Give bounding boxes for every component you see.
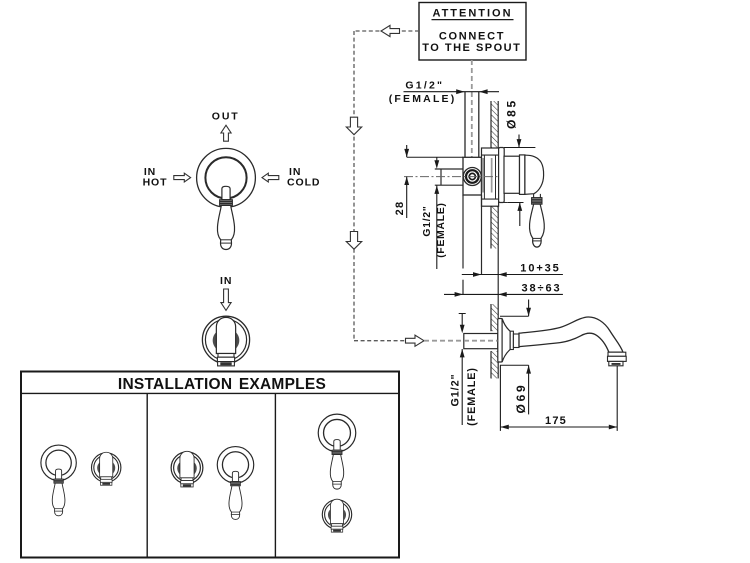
svg-text:TO THE SPOUT: TO THE SPOUT (422, 42, 521, 54)
svg-text:175: 175 (545, 415, 567, 427)
hollow arrow left (to riser) (381, 25, 400, 36)
spout step (513, 334, 519, 348)
mounting collar through wall (482, 148, 499, 206)
hollow arrow down 1 (346, 117, 361, 135)
svg-text:(FEMALE): (FEMALE) (436, 202, 447, 258)
example 3: mixer top (318, 414, 356, 489)
hollow arrow right (to spout) (406, 335, 425, 346)
wall section (hatched) (491, 101, 498, 378)
svg-text:28: 28 (394, 201, 406, 216)
svg-text:G1/2": G1/2" (422, 205, 433, 236)
dome cap (525, 155, 544, 194)
spout ring (510, 331, 513, 349)
hollow arrow down 2 (346, 232, 361, 250)
example 3: valve bottom (322, 499, 351, 532)
valve body (rough-in) (463, 157, 482, 195)
centre line (horizontal, dash-dot) (404, 176, 498, 178)
spout centre line through stub (424, 340, 498, 342)
svg-text:ATTENTION: ATTENTION (432, 7, 512, 19)
screw cap circles on body (463, 168, 481, 186)
dimension G1/2 female (inlet stub) (422, 157, 447, 269)
example 2: valve left (171, 451, 203, 487)
example 1: mixer left (41, 445, 76, 516)
dimension 10+35 (462, 263, 563, 277)
inlet stub (left of body) (435, 169, 463, 185)
dimension G1/2 female (spout stub) (449, 314, 478, 426)
lever handle (section view) (530, 194, 545, 247)
svg-text:38÷63: 38÷63 (521, 282, 561, 294)
svg-text:COLD: COLD (287, 176, 320, 188)
svg-text:CONNECT: CONNECT (439, 31, 505, 43)
spout aerator (608, 352, 626, 356)
svg-text:Ø85: Ø85 (505, 98, 519, 129)
escutcheon flange (499, 148, 505, 203)
extension lines below valve (463, 195, 482, 294)
svg-text:HOT: HOT (143, 176, 168, 188)
attention box (419, 3, 526, 61)
svg-text:G1/2": G1/2" (405, 80, 444, 92)
mixer trim front view (197, 148, 256, 249)
example 2: mixer right (217, 447, 253, 520)
svg-text:IN: IN (220, 275, 232, 287)
svg-text:INSTALLATION EXAMPLES: INSTALLATION EXAMPLES (118, 376, 326, 393)
hollow arrow right (hot) (174, 173, 191, 182)
svg-text:(FEMALE): (FEMALE) (466, 367, 478, 426)
svg-text:Ø69: Ø69 (514, 382, 528, 413)
spout bell (502, 319, 510, 363)
svg-text:10+35: 10+35 (520, 263, 560, 275)
dimension 175 (500, 365, 617, 431)
dashed route line: attention box to wall axis (354, 31, 424, 341)
cap ring (520, 155, 525, 195)
trim sleeve (504, 156, 520, 193)
spout tube (519, 317, 623, 352)
dimension G1/2 female (top pipe) (389, 80, 499, 106)
dimension 38:63 (444, 282, 563, 296)
spout escutcheon disc (498, 319, 502, 363)
spout supply stub through wall (464, 334, 498, 349)
example 1: valve right (92, 452, 121, 485)
hollow arrow down (in) (221, 289, 231, 310)
hollow arrow up (out) (221, 125, 231, 141)
svg-text:OUT: OUT (212, 111, 240, 123)
svg-text:G1/2": G1/2" (449, 373, 461, 406)
valve trim front view (202, 316, 249, 366)
valve axis dashed line (471, 60, 473, 166)
installation examples box (21, 372, 399, 558)
hollow arrow left (cold) (262, 173, 279, 182)
supply pipe (vertical, behind wall) (465, 92, 479, 157)
dimension dia 85 (504, 98, 535, 226)
dimension dia 69 (500, 300, 531, 415)
svg-text:(FEMALE): (FEMALE) (389, 93, 457, 105)
dimension 28 (394, 145, 463, 218)
